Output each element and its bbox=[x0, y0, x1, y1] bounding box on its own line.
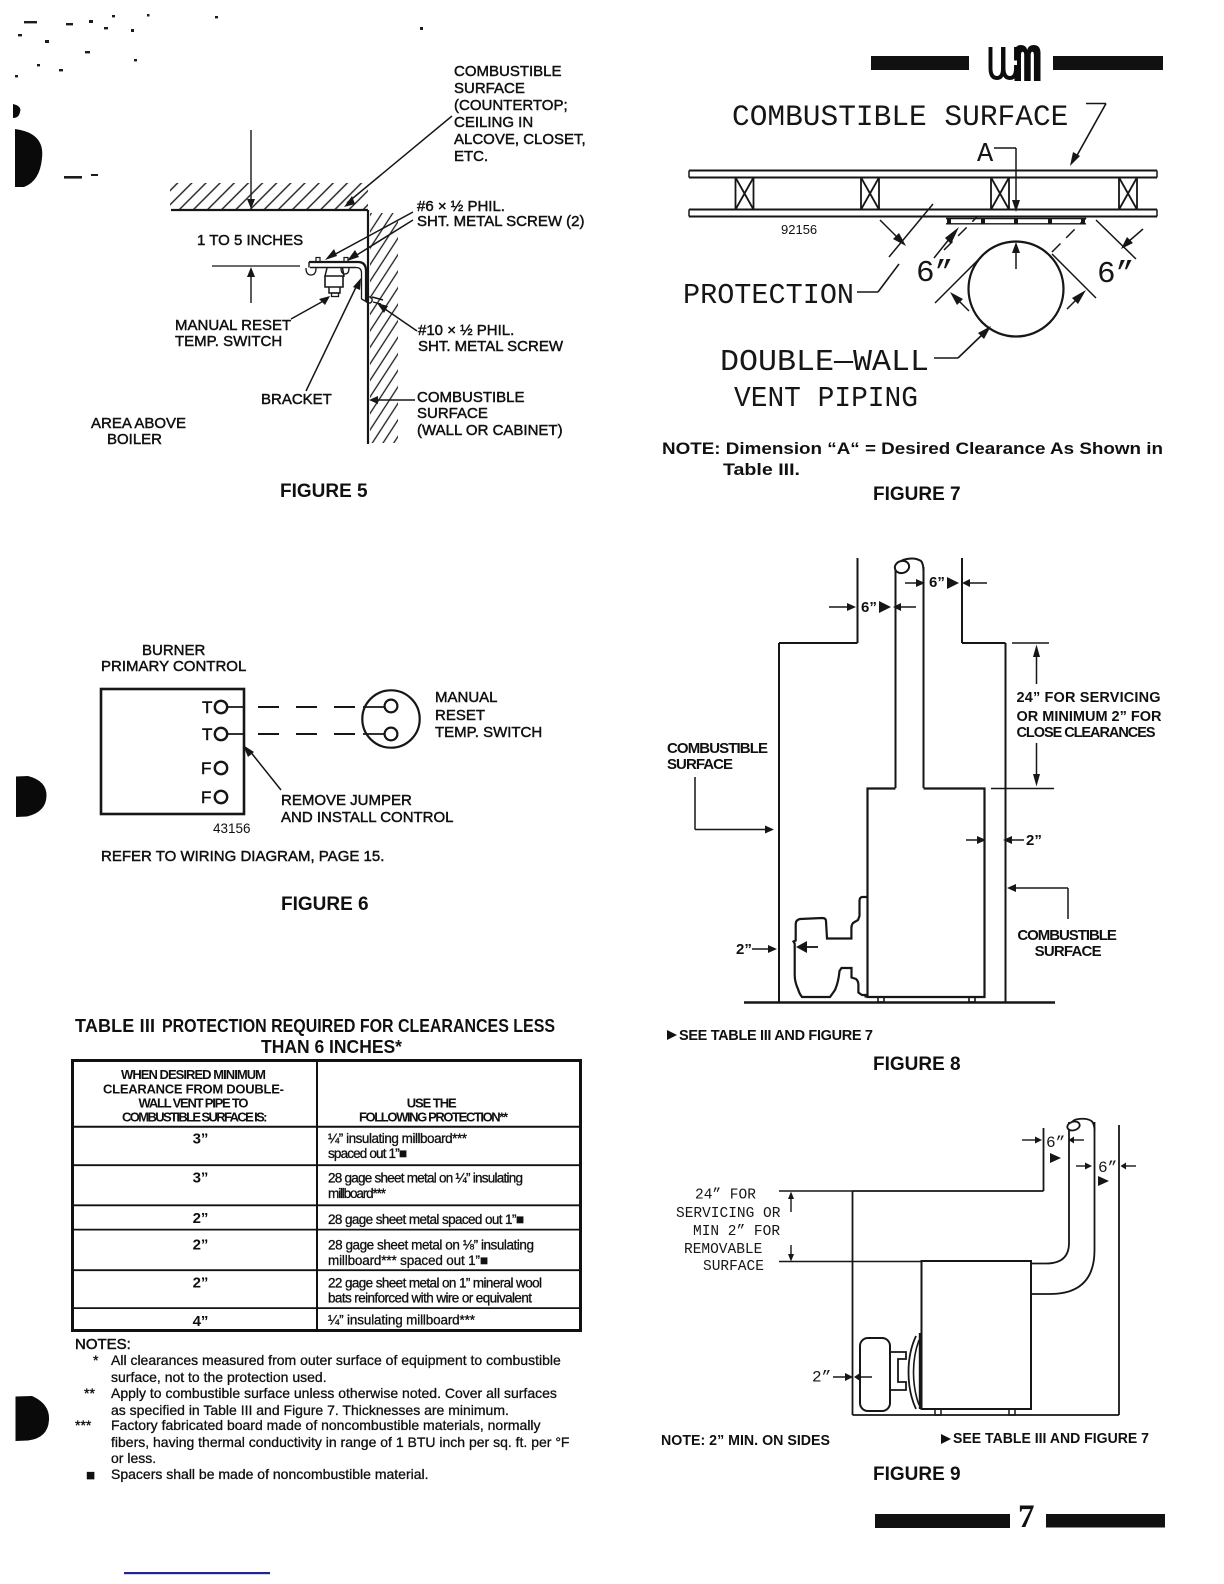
24in lower arrow fig9 bbox=[790, 1245, 792, 1256]
temp switch bracket plate bbox=[309, 261, 358, 263]
burner box fig9 bbox=[860, 1338, 890, 1411]
scan artifact: small mark bbox=[13, 104, 20, 118]
svg-text:COMBUSTIBLE: COMBUSTIBLE bbox=[667, 740, 768, 757]
svg-text:ETC.: ETC. bbox=[454, 148, 488, 165]
svg-text:MANUAL: MANUAL bbox=[435, 689, 498, 706]
24in top extension bbox=[779, 1190, 853, 1192]
svg-text:SURFACE: SURFACE bbox=[417, 405, 488, 422]
svg-text:bats reinforced with wire or e: bats reinforced with wire or equivalent bbox=[328, 1291, 532, 1306]
svg-text:2”: 2” bbox=[1026, 832, 1042, 849]
svg-text:DOUBLE—WALL: DOUBLE—WALL bbox=[720, 345, 929, 380]
svg-text:*: * bbox=[93, 1352, 99, 1368]
svg-text:T: T bbox=[202, 725, 212, 744]
leader #6 screw (two lines) bbox=[330, 212, 413, 257]
svg-text:¼” insulating millboard***: ¼” insulating millboard*** bbox=[328, 1131, 468, 1146]
scan artifact: left edge blob 3 bbox=[16, 1396, 50, 1441]
svg-text:spaced out 1”■: spaced out 1”■ bbox=[328, 1146, 407, 1161]
fig8 labels bbox=[667, 574, 1162, 1075]
dimension A corner line bbox=[994, 147, 1016, 149]
leader bracket bbox=[306, 283, 358, 391]
terminal F2 bbox=[215, 791, 227, 803]
scan artifact: top-left specks bbox=[15, 14, 423, 179]
svg-text:24” FOR SERVICING: 24” FOR SERVICING bbox=[1017, 690, 1161, 706]
wire into contact 1 bbox=[363, 706, 384, 708]
table col1 values bbox=[193, 1131, 209, 1330]
left inner wall bbox=[857, 558, 859, 643]
svg-text:6”: 6” bbox=[1046, 1134, 1065, 1152]
svg-text:F: F bbox=[201, 788, 211, 807]
burner primary control box bbox=[101, 689, 244, 814]
left dim arrow upper bbox=[880, 220, 898, 238]
joist block 2 bbox=[861, 178, 879, 210]
left dim arrow to strip bbox=[934, 238, 950, 258]
svg-text:■: ■ bbox=[86, 1467, 95, 1484]
6in dim arrows right pair bbox=[905, 582, 918, 584]
svg-text:All clearances measured from o: All clearances measured from outer surfa… bbox=[111, 1352, 561, 1368]
vent pipe right line with elbow bbox=[1031, 1122, 1095, 1294]
svg-text:Apply to combustible surface u: Apply to combustible surface unless othe… bbox=[111, 1385, 557, 1401]
6in dim a fig9 bbox=[1022, 1139, 1037, 1141]
double-wall vent pipe circle bbox=[969, 242, 1064, 337]
left dashed clearance line bbox=[944, 216, 978, 250]
right soffit bbox=[962, 642, 1006, 644]
footer bar left bbox=[875, 1514, 1010, 1528]
svg-text:2”: 2” bbox=[812, 1369, 831, 1387]
logo right bar bbox=[1053, 56, 1163, 70]
svg-text:3”: 3” bbox=[193, 1170, 209, 1187]
enclosure floor bbox=[853, 1414, 1120, 1416]
svg-text:MIN 2” FOR: MIN 2” FOR bbox=[693, 1224, 780, 1240]
vent pipe right line bbox=[923, 567, 925, 788]
logo W glyph bbox=[991, 47, 1004, 78]
wire into contact 2 bbox=[363, 733, 384, 735]
svg-text:WALL VENT PIPE TO: WALL VENT PIPE TO bbox=[139, 1096, 249, 1111]
table header bbox=[103, 1067, 509, 1125]
right inner wall bbox=[961, 558, 963, 643]
svg-text:FIGURE 8: FIGURE 8 bbox=[873, 1054, 961, 1075]
fig9 draft lettering bbox=[676, 1134, 1117, 1387]
scan artifact: left edge blob 2 bbox=[16, 776, 47, 817]
svg-text:Factory fabricated board made: Factory fabricated board made of noncomb… bbox=[111, 1417, 541, 1433]
svg-text:3”: 3” bbox=[193, 1131, 209, 1148]
svg-text:RESET: RESET bbox=[435, 707, 485, 724]
svg-text:or less.: or less. bbox=[111, 1450, 156, 1466]
fig5 labels bbox=[91, 63, 586, 448]
burner 2in arrow inside bbox=[806, 946, 818, 948]
svg-text:PROTECTION: PROTECTION bbox=[683, 279, 854, 312]
svg-text:REMOVE JUMPER: REMOVE JUMPER bbox=[281, 792, 412, 809]
enclosure left wall bbox=[852, 1191, 854, 1415]
#10 screw on wall bbox=[366, 297, 372, 303]
svg-text:Spacers shall be made of nonco: Spacers shall be made of noncombustible … bbox=[111, 1466, 429, 1482]
svg-text:FIGURE 6: FIGURE 6 bbox=[281, 894, 369, 915]
svg-text:NOTES:: NOTES: bbox=[75, 1336, 131, 1353]
svg-text:BURNER: BURNER bbox=[142, 642, 206, 659]
svg-text:6”: 6” bbox=[1098, 1159, 1117, 1177]
protection strip under joist bbox=[946, 218, 1086, 220]
svg-text:as specified in Table III and: as specified in Table III and Figure 7. … bbox=[111, 1402, 509, 1418]
wall line bbox=[367, 210, 369, 444]
svg-text:surface, not to the protection: surface, not to the protection used. bbox=[111, 1369, 327, 1385]
arrow at top of vent pipe circle bbox=[1012, 242, 1020, 253]
svg-text:T: T bbox=[202, 698, 212, 717]
right dim arrow upper bbox=[1128, 229, 1143, 242]
svg-text:millboard*** spaced out 1”■: millboard*** spaced out 1”■ bbox=[328, 1253, 488, 1268]
wall hatching bbox=[370, 213, 398, 443]
24in dim upper arrow bbox=[1036, 652, 1038, 684]
fig7 draft lettering bbox=[683, 100, 1134, 415]
svg-text:FIGURE 7: FIGURE 7 bbox=[873, 484, 961, 505]
leader manual reset bbox=[291, 299, 327, 319]
24in bottom extension bbox=[779, 1261, 922, 1263]
manual reset temp switch body bbox=[325, 268, 344, 276]
svg-text:2”: 2” bbox=[193, 1237, 209, 1254]
svg-text:TEMP. SWITCH: TEMP. SWITCH bbox=[435, 724, 542, 741]
boiler jacket bbox=[868, 789, 985, 998]
see-marker triangle a bbox=[1050, 1153, 1061, 1163]
svg-text:SHT. METAL SCREW: SHT. METAL SCREW bbox=[418, 338, 564, 355]
TABLE III border bbox=[73, 1061, 581, 1331]
svg-text:SURFACE: SURFACE bbox=[703, 1259, 764, 1275]
svg-text:REFER TO WIRING DIAGRAM, PAGE: REFER TO WIRING DIAGRAM, PAGE 15. bbox=[101, 848, 384, 865]
see-marker triangle b bbox=[1098, 1176, 1109, 1186]
svg-text:(WALL OR CABINET): (WALL OR CABINET) bbox=[417, 422, 563, 439]
svg-text:fibers, having thermal conduct: fibers, having thermal conductivity in r… bbox=[111, 1434, 569, 1450]
svg-text:BOILER: BOILER bbox=[107, 431, 162, 448]
left soffit bbox=[779, 642, 858, 644]
svg-text:TABLE III: TABLE III bbox=[75, 1016, 155, 1036]
left 2in arrow outside bbox=[752, 948, 770, 950]
bracket screws on plate bbox=[316, 258, 320, 263]
wire T1 to box edge bbox=[227, 706, 244, 708]
svg-text:PRIMARY CONTROL: PRIMARY CONTROL bbox=[101, 658, 246, 675]
terminal T1 bbox=[215, 701, 227, 713]
svg-text:VENT PIPING: VENT PIPING bbox=[734, 382, 918, 415]
leader from combustible surface label bbox=[1086, 103, 1106, 105]
wire T2 to box edge bbox=[227, 733, 244, 735]
terminal T2 bbox=[215, 728, 227, 740]
svg-text:28 gage sheet metal spaced out: 28 gage sheet metal spaced out 1”■ bbox=[328, 1212, 524, 1227]
footer bar right bbox=[1046, 1514, 1165, 1528]
ceiling hatching bbox=[170, 183, 368, 209]
joist bottom plate bbox=[689, 209, 1157, 211]
logo m glyph bbox=[1015, 45, 1041, 81]
svg-text:CLEARANCE FROM DOUBLE-: CLEARANCE FROM DOUBLE- bbox=[103, 1082, 284, 1097]
svg-text:BRACKET: BRACKET bbox=[261, 391, 332, 408]
terminal letters bbox=[201, 698, 212, 807]
svg-text:FIGURE 9: FIGURE 9 bbox=[873, 1464, 961, 1485]
svg-text:SURFACE: SURFACE bbox=[667, 756, 733, 773]
svg-text:28 gage sheet metal on ¼” insu: 28 gage sheet metal on ¼” insulating bbox=[328, 1171, 523, 1186]
right outer wall bbox=[1005, 643, 1007, 1002]
svg-text:¼” insulating millboard***: ¼” insulating millboard*** bbox=[328, 1313, 476, 1328]
vent pipe left line bbox=[895, 566, 897, 788]
scan artifact: blue line bbox=[124, 1572, 270, 1574]
24in dim lower arrow bbox=[1036, 743, 1038, 777]
lower extension line bbox=[991, 788, 1054, 790]
burner outline bbox=[794, 897, 868, 998]
leader #10 screw bbox=[382, 307, 417, 331]
svg-text:USE THE: USE THE bbox=[407, 1096, 457, 1111]
svg-text:REMOVABLE: REMOVABLE bbox=[684, 1242, 762, 1258]
svg-text:COMBUSTIBLE: COMBUSTIBLE bbox=[454, 63, 562, 80]
6in dim b fig9 bbox=[1076, 1165, 1087, 1167]
joist block 4 bbox=[1119, 178, 1137, 210]
vent pipe cap bbox=[896, 558, 924, 574]
leader remove jumper bbox=[249, 750, 281, 790]
svg-text:SEE TABLE III AND FIGURE 7: SEE TABLE III AND FIGURE 7 bbox=[679, 1028, 873, 1044]
svg-text:SERVICING OR: SERVICING OR bbox=[676, 1206, 781, 1222]
svg-text:ALCOVE, CLOSET,: ALCOVE, CLOSET, bbox=[454, 131, 586, 148]
boiler legs fig9 bbox=[935, 1409, 941, 1415]
joist block 3 bbox=[991, 178, 1009, 210]
svg-text:4”: 4” bbox=[193, 1313, 209, 1330]
boiler jacket fig9 bbox=[922, 1261, 1032, 1409]
svg-text:7: 7 bbox=[1018, 1499, 1035, 1535]
dashed wire row 2 bbox=[258, 733, 356, 735]
svg-text:(COUNTERTOP;: (COUNTERTOP; bbox=[454, 97, 568, 114]
right extension line bbox=[1096, 220, 1136, 259]
leader combustible surface top bbox=[347, 116, 452, 203]
svg-text:6”: 6” bbox=[929, 574, 945, 591]
joist block 1 bbox=[736, 178, 754, 210]
svg-text:43156: 43156 bbox=[213, 821, 251, 836]
joist top plate bbox=[689, 170, 1157, 172]
scan artifact: left edge blob 1 bbox=[15, 129, 42, 187]
svg-text:**: ** bbox=[84, 1385, 95, 1401]
right 2in arrows bbox=[966, 839, 979, 841]
svg-text:6”: 6” bbox=[1097, 257, 1134, 292]
svg-text:6”: 6” bbox=[861, 599, 877, 616]
svg-text:2”: 2” bbox=[193, 1275, 209, 1292]
svg-text:SURFACE: SURFACE bbox=[454, 80, 525, 97]
svg-text:F: F bbox=[201, 759, 211, 778]
svg-text:THAN 6 INCHES*: THAN 6 INCHES* bbox=[261, 1037, 402, 1057]
right dashed clearance line bbox=[1052, 218, 1086, 252]
right tangent line bbox=[1052, 254, 1096, 298]
burner flange plates fig9 bbox=[909, 1336, 917, 1409]
leader combustible left bbox=[694, 777, 696, 830]
leader double-wall vent piping bbox=[934, 357, 958, 359]
table col2 text bbox=[328, 1131, 542, 1328]
dashed wire row 1 bbox=[258, 706, 356, 708]
leader protection bbox=[857, 291, 878, 293]
svg-text:92156: 92156 bbox=[781, 222, 817, 237]
svg-text:CEILING IN: CEILING IN bbox=[454, 114, 533, 131]
24in upper arrow fig9 bbox=[790, 1197, 792, 1212]
svg-text:1 TO 5 INCHES: 1 TO 5 INCHES bbox=[197, 232, 303, 249]
svg-text:22 gage sheet metal on 1” mine: 22 gage sheet metal on 1” mineral wool bbox=[328, 1275, 542, 1290]
fig6 labels bbox=[101, 642, 542, 865]
ceiling line bbox=[171, 209, 368, 211]
svg-text:COMBUSTIBLE SURFACE: COMBUSTIBLE SURFACE bbox=[732, 100, 1068, 134]
svg-text:millboard***: millboard*** bbox=[328, 1186, 387, 1201]
svg-text:NOTE: 2” MIN. ON SIDES: NOTE: 2” MIN. ON SIDES bbox=[661, 1433, 830, 1449]
svg-text:SHT. METAL SCREW (2): SHT. METAL SCREW (2) bbox=[417, 213, 585, 230]
svg-text:A: A bbox=[977, 140, 994, 170]
svg-text:SEE TABLE III AND FIGURE 7: SEE TABLE III AND FIGURE 7 bbox=[953, 1431, 1149, 1447]
arrow up to dim line bbox=[250, 275, 252, 303]
arrow on left tangent bbox=[958, 300, 969, 311]
svg-text:WHEN DESIRED MINIMUM: WHEN DESIRED MINIMUM bbox=[121, 1067, 266, 1082]
dimension line 1 TO 5 INCHES bbox=[212, 265, 300, 267]
leader combustible wall bbox=[376, 399, 415, 401]
arrow above ceiling bbox=[250, 130, 252, 201]
svg-text:FIGURE 5: FIGURE 5 bbox=[280, 481, 368, 502]
terminal F1 bbox=[215, 762, 227, 774]
svg-text:24” FOR: 24” FOR bbox=[695, 1188, 756, 1204]
burner stub fig9 bbox=[890, 1352, 906, 1390]
svg-text:2”: 2” bbox=[736, 941, 752, 958]
pipe cap bbox=[1069, 1119, 1095, 1131]
leader combustible right bbox=[1007, 884, 1016, 892]
switch contact 2 bbox=[385, 728, 398, 741]
bracket ears under plate bbox=[306, 268, 316, 275]
left tangent line bbox=[935, 254, 984, 303]
svg-text:COMBUSTIBLE: COMBUSTIBLE bbox=[417, 389, 525, 406]
6in dim arrows left pair bbox=[829, 606, 849, 608]
svg-text:PROTECTION REQUIRED FOR CLEARA: PROTECTION REQUIRED FOR CLEARANCES LESS bbox=[162, 1016, 555, 1036]
floor line bbox=[744, 1001, 1055, 1003]
svg-text:2”: 2” bbox=[193, 1210, 209, 1227]
svg-text:FOLLOWING PROTECTION**: FOLLOWING PROTECTION** bbox=[359, 1110, 509, 1125]
logo hyphen bbox=[1011, 61, 1017, 66]
enclosure top line bbox=[853, 1190, 1044, 1192]
FIGURE 7 logo left bar bbox=[871, 56, 969, 70]
svg-text:MANUAL RESET: MANUAL RESET bbox=[175, 317, 291, 334]
svg-text:***: *** bbox=[75, 1417, 92, 1433]
upper extension line bbox=[1012, 642, 1049, 644]
svg-text:CLOSE CLEARANCES: CLOSE CLEARANCES bbox=[1017, 725, 1156, 741]
svg-text:6”: 6” bbox=[916, 256, 953, 291]
svg-text:AREA ABOVE: AREA ABOVE bbox=[91, 415, 186, 432]
svg-text:Table III.: Table III. bbox=[723, 460, 800, 479]
svg-text:COMBUSTIBLE: COMBUSTIBLE bbox=[1017, 927, 1117, 944]
arrow on right tangent bbox=[1067, 299, 1077, 309]
switch contact 1 bbox=[385, 700, 398, 713]
stub wall above enclosure top bbox=[1043, 1128, 1045, 1191]
left extension line bbox=[889, 204, 933, 257]
svg-text:OR MINIMUM 2” FOR: OR MINIMUM 2” FOR bbox=[1017, 709, 1163, 725]
svg-text:SURFACE: SURFACE bbox=[1035, 943, 1102, 960]
svg-text:#10 × ½ PHIL.: #10 × ½ PHIL. bbox=[418, 322, 514, 339]
svg-text:COMBUSTIBLE SURFACE IS:: COMBUSTIBLE SURFACE IS: bbox=[122, 1110, 268, 1125]
svg-text:28 gage sheet metal on ⅛” insu: 28 gage sheet metal on ⅛” insulating bbox=[328, 1237, 534, 1252]
vent pipe left line with elbow bbox=[1031, 1122, 1069, 1264]
right wall bbox=[1118, 1125, 1120, 1415]
svg-text:TEMP. SWITCH: TEMP. SWITCH bbox=[175, 333, 282, 350]
left outer wall bbox=[778, 643, 780, 1002]
svg-text:NOTE: Dimension “A“ = Desired: NOTE: Dimension “A“ = Desired Clearance … bbox=[662, 439, 1163, 458]
manual reset switch circle bbox=[362, 690, 419, 747]
2in arrows fig9 bbox=[833, 1376, 847, 1378]
boiler legs bbox=[878, 997, 884, 1002]
svg-text:AND INSTALL CONTROL: AND INSTALL CONTROL bbox=[281, 809, 454, 826]
